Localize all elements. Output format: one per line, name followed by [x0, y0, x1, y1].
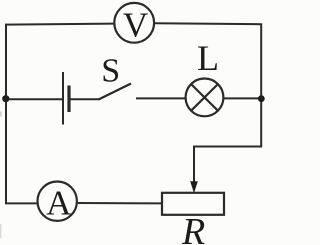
node right junction: [258, 95, 265, 102]
svg-text:V: V: [123, 6, 148, 45]
svg-text:A: A: [46, 184, 72, 223]
wire switch to lamp: [136, 97, 186, 99]
wire left vertical lower: [6, 99, 37, 203]
rheostat slider arrowhead: [190, 181, 198, 193]
lamp L: [186, 38, 224, 116]
wire battery to switch: [70, 98, 100, 100]
wire top-right: [154, 23, 261, 99]
svg-text:L: L: [197, 38, 219, 78]
wire right vertical to rheostat slider: [194, 99, 261, 183]
switch S: [99, 53, 132, 100]
svg-text:R: R: [181, 211, 205, 245]
wire top-left: [6, 24, 114, 100]
wire lamp to right: [223, 97, 261, 99]
svg-text:S: S: [101, 53, 120, 90]
voltmeter V: [114, 3, 154, 45]
node left junction: [2, 95, 9, 102]
ammeter A: [38, 182, 77, 223]
wire ammeter to rheostat: [78, 202, 162, 204]
battery long plate: [62, 72, 64, 125]
battery short plate: [67, 86, 70, 113]
rheostat R: [162, 181, 224, 245]
wire battery feed: [6, 98, 63, 100]
battery: [63, 72, 69, 125]
